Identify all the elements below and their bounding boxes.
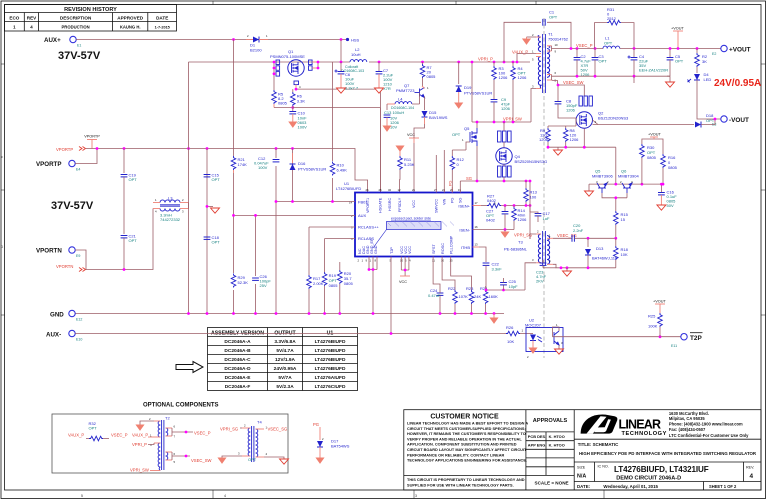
junction rail x292.5 — [291, 147, 294, 150]
wire C4 node down to driver supply — [633, 76, 635, 83]
diode D13 — [587, 238, 589, 247]
svg-text:10uH: 10uH — [351, 52, 361, 57]
diode D16 TVS — [290, 164, 296, 170]
svg-text:2512: 2512 — [607, 16, 617, 21]
svg-text:107K: 107K — [459, 294, 469, 299]
svg-text:SCALE = NONE: SCALE = NONE — [535, 481, 569, 486]
capacitor C2 — [576, 49, 578, 58]
svg-text:26: 26 — [366, 188, 370, 192]
svg-text:E1: E1 — [77, 44, 81, 48]
svg-text:DC2046A-B: DC2046A-B — [224, 348, 251, 354]
isolation barrier dashed line — [543, 18, 545, 358]
svg-text:DC2046A-D: DC2046A-D — [224, 366, 251, 372]
svg-text:VSEC_P: VSEC_P — [576, 43, 593, 48]
capacitor C27 — [504, 204, 507, 207]
svg-text:VSEC_SW: VSEC_SW — [191, 458, 212, 463]
wire vertical 188.5 — [188, 62, 190, 314]
svg-text:E2: E2 — [712, 52, 716, 56]
svg-text:R23: R23 — [466, 286, 474, 291]
resistor R10 — [328, 161, 337, 178]
svg-text:TITLE: SCHEMATIC: TITLE: SCHEMATIC — [578, 442, 619, 447]
wire C19 column — [123, 149, 125, 174]
svg-text:MOC207: MOC207 — [525, 323, 542, 328]
wire ISEN- line — [473, 229, 515, 231]
wire T3 primary top — [530, 234, 536, 239]
assembly version table — [208, 328, 358, 391]
svg-text:1206: 1206 — [570, 137, 580, 142]
svg-text:HIGH EFFICIENCY POE PD INTERFA: HIGH EFFICIENCY POE PD INTERFACE WITH IN… — [579, 451, 757, 456]
resistor R29 — [229, 273, 238, 290]
wire E4 up to rail — [75, 149, 97, 164]
svg-text:750314762: 750314762 — [548, 37, 569, 42]
svg-text:VSEC_P: VSEC_P — [194, 431, 211, 436]
power flag VCC bottom — [400, 275, 410, 277]
svg-text:D13: D13 — [596, 246, 604, 251]
capacitor C8 snubber — [557, 85, 559, 101]
svg-text:LT4276AIUFD: LT4276AIUFD — [315, 375, 346, 381]
wire T1 aux bottom — [517, 54, 536, 63]
ground T4 left — [222, 456, 242, 458]
wire VPRI_P bus (VIN) — [189, 61, 351, 63]
svg-text:17: 17 — [475, 201, 479, 205]
junction rail x97 — [96, 147, 99, 150]
svg-text:12V/1.9A: 12V/1.9A — [275, 357, 296, 363]
svg-text:VCC: VCC — [412, 200, 416, 208]
capacitor C17 — [529, 206, 531, 213]
svg-text:PG: PG — [450, 197, 454, 203]
svg-text:VSEC_P: VSEC_P — [111, 433, 128, 438]
svg-text:25V: 25V — [260, 283, 267, 288]
svg-text:SFST: SFST — [432, 244, 436, 254]
svg-text:Phone: (408)432-1900 www.line: Phone: (408)432-1900 www.linear.com — [669, 422, 743, 427]
svg-text:APP ENG.: APP ENG. — [528, 443, 547, 448]
resistor R13 — [525, 180, 528, 183]
svg-text:DC2046A-A: DC2046A-A — [224, 339, 251, 345]
junction gnd bus j1 — [187, 312, 190, 315]
svg-text:ITHB: ITHB — [461, 245, 470, 250]
svg-text:K. HTOO: K. HTOO — [549, 443, 565, 448]
wire gate drive row — [548, 118, 576, 126]
svg-text:D16: D16 — [298, 161, 306, 166]
wire Q1 source HSSRC line — [296, 89, 380, 192]
U1 ROSC pin — [442, 257, 455, 291]
svg-text:5.23K: 5.23K — [404, 162, 415, 167]
zone tick right b — [761, 189, 766, 191]
GND bus wire — [75, 313, 504, 315]
svg-text:PSMN075-100MSE: PSMN075-100MSE — [270, 54, 305, 59]
U1 PLLCOMP pin — [451, 257, 472, 291]
U1 GND pins to ground bus — [369, 257, 377, 314]
svg-text:24V/0.95A: 24V/0.95A — [714, 78, 761, 89]
driver collector bus — [589, 147, 663, 184]
svg-text:0402: 0402 — [486, 218, 496, 223]
resistor R26 — [504, 333, 506, 335]
ground D17 — [316, 458, 323, 463]
U1 top pin labels — [366, 197, 463, 213]
svg-text:PG: PG — [313, 422, 319, 427]
svg-text:PTVS58VS1UR: PTVS58VS1UR — [464, 91, 492, 96]
wire SG vertical to T3 — [529, 181, 531, 239]
svg-text:R22: R22 — [448, 286, 456, 291]
svg-text:+VOUT: +VOUT — [648, 133, 661, 137]
wire ISEN+ line — [473, 205, 482, 207]
capacitor C25 — [503, 285, 505, 290]
resistor R15 — [614, 211, 619, 225]
ground C6 — [337, 88, 346, 93]
svg-text:-VOUT: -VOUT — [729, 117, 749, 124]
wire source bus — [548, 142, 616, 147]
svg-text:VAUX_P: VAUX_P — [132, 433, 148, 438]
wire VSEC_P bus — [553, 48, 721, 50]
wire C19 to C21 — [123, 177, 125, 234]
approvals block — [526, 418, 574, 486]
wire HSGATE line — [293, 108, 381, 193]
zone tick bottom 1 — [212, 490, 214, 499]
resistor R4 — [512, 62, 514, 66]
svg-text:EEH-ZA1V220R: EEH-ZA1V220R — [639, 68, 668, 73]
svg-text:100V: 100V — [258, 165, 268, 170]
svg-text:VAUX_P: VAUX_P — [68, 433, 84, 438]
svg-text:PCB DES.: PCB DES. — [528, 434, 546, 439]
zone tick top 1 — [212, 1, 214, 5]
transistor Q4 MOSFET — [498, 131, 502, 142]
svg-text:0805: 0805 — [427, 74, 437, 79]
svg-text:E9: E9 — [76, 254, 80, 258]
svg-text:3.3K: 3.3K — [297, 99, 306, 104]
svg-text:FFSDLY: FFSDLY — [398, 197, 402, 212]
svg-text:10: 10 — [441, 259, 445, 263]
svg-text:SWVCC: SWVCC — [434, 199, 438, 213]
svg-text:6.3x7.7: 6.3x7.7 — [345, 86, 359, 91]
transistor Q2 MOSFET — [576, 112, 592, 128]
svg-text:ECO: ECO — [9, 16, 19, 21]
svg-text:OPT: OPT — [549, 15, 558, 20]
svg-text:PE-68386NL: PE-68386NL — [504, 247, 528, 252]
wire VPRI_SW bus — [472, 62, 531, 122]
resistor R9 — [547, 126, 549, 128]
svg-text:E4: E4 — [76, 168, 80, 172]
svg-text:2.2nF: 2.2nF — [573, 228, 584, 233]
svg-text:MMBT3904: MMBT3904 — [618, 174, 639, 179]
resistor R22 — [453, 290, 458, 304]
svg-text:B2100: B2100 — [250, 48, 262, 53]
svg-text:T3: T3 — [518, 240, 523, 245]
capacitor C26 — [251, 276, 260, 284]
svg-text:24K: 24K — [474, 294, 481, 299]
wire vertical 233.5 lower — [233, 215, 235, 314]
wire Q2 pin4 line — [593, 124, 695, 126]
svg-text:Fax: (408)434-0507: Fax: (408)434-0507 — [669, 427, 706, 432]
ground sw — [557, 147, 559, 150]
ground stub near 207 — [207, 205, 213, 207]
svg-text:SG: SG — [466, 176, 472, 181]
svg-text:HSGATE: HSGATE — [379, 197, 383, 213]
svg-text:LT4276BIUFD: LT4276BIUFD — [315, 357, 346, 363]
revision history table — [5, 5, 177, 32]
svg-text:GND: GND — [50, 312, 64, 319]
resistor R31 parallel loop — [595, 23, 635, 49]
svg-text:R25: R25 — [648, 314, 656, 319]
capacitor C5 — [669, 49, 671, 58]
title block outline — [404, 410, 761, 490]
resistor R25 — [659, 335, 662, 338]
resistor R3 — [493, 62, 495, 66]
svg-text:5V/7A: 5V/7A — [278, 375, 292, 381]
svg-text:OPT: OPT — [212, 240, 221, 245]
diode D18 — [695, 122, 701, 128]
svg-text:13: 13 — [475, 243, 479, 247]
junction R3 — [493, 61, 496, 64]
capacitor C10 — [292, 106, 294, 111]
svg-text:OPT: OPT — [706, 118, 715, 123]
wire R5 bottom to HSGATE line — [274, 107, 293, 109]
Linear Technology logo — [581, 411, 750, 438]
svg-text:PERFORMANCE OR RELIABILITY. C: PERFORMANCE OR RELIABILITY. CONTACT LINE… — [407, 453, 505, 457]
resistor R6 — [292, 89, 294, 92]
customer notice — [404, 414, 529, 488]
svg-text:LTC Confidential-For Customer: LTC Confidential-For Customer Use Only — [669, 433, 749, 438]
wire SWVCC pin up — [435, 155, 437, 193]
capacitor C4 — [633, 49, 635, 58]
svg-text:Milpitas, CA 95035: Milpitas, CA 95035 — [669, 416, 706, 421]
resistor R21 — [229, 156, 238, 173]
svg-text:37V-57V: 37V-57V — [51, 200, 94, 212]
svg-text:VPRI_P: VPRI_P — [132, 442, 147, 447]
svg-text:ISEN+: ISEN+ — [458, 203, 470, 208]
resistor R8 — [565, 126, 567, 128]
svg-text:5: 5 — [81, 494, 83, 498]
svg-text:PTVS58VS1UR: PTVS58VS1UR — [298, 167, 326, 172]
capacitor C20 — [553, 237, 572, 239]
svg-text:DC2046A-C: DC2046A-C — [224, 357, 251, 363]
svg-text:744272332: 744272332 — [160, 217, 181, 222]
wire VCC pin column — [413, 143, 415, 193]
svg-text:4: 4 — [224, 494, 226, 498]
svg-text:T2P: T2P — [390, 247, 394, 254]
zone tick left b — [1, 189, 5, 191]
svg-text:10: 10 — [555, 43, 559, 47]
svg-text:DATE:: DATE: — [577, 484, 591, 489]
capacitor C23 — [543, 267, 556, 269]
junction L1 out — [633, 47, 636, 50]
svg-text:RCLASS++: RCLASS++ — [358, 225, 379, 230]
junction gnd bus j2 — [206, 312, 209, 315]
svg-text:0805: 0805 — [344, 281, 354, 286]
zone tick left a — [1, 63, 5, 65]
junction rail x124 — [123, 147, 126, 150]
zone tick bottom 2 — [413, 490, 415, 499]
svg-text:LINEAR TECHNOLOGY HAS MADE A B: LINEAR TECHNOLOGY HAS MADE A BEST EFFORT… — [407, 422, 528, 426]
resistor R20 — [339, 262, 341, 270]
junction C1 drop — [503, 61, 506, 64]
junction R4 — [512, 61, 515, 64]
wire VPORTP rail — [86, 149, 368, 193]
U1 bottom pin labels — [358, 235, 454, 254]
svg-text:VSEC_SG: VSEC_SG — [268, 427, 288, 432]
resistor R30 — [641, 158, 643, 184]
svg-text:SG: SG — [458, 197, 462, 203]
svg-text:BAT54WS: BAT54WS — [331, 444, 350, 449]
wire C21 to VPORTN line — [123, 238, 125, 270]
svg-text:Q5: Q5 — [464, 126, 470, 131]
gate pads Q2 — [579, 96, 582, 106]
ground sg — [566, 268, 568, 271]
svg-text:LT4276CIUFD: LT4276CIUFD — [315, 384, 346, 390]
wire FB01 line — [276, 201, 355, 203]
svg-text:T4: T4 — [257, 420, 262, 425]
svg-text:VIN: VIN — [442, 198, 446, 205]
svg-text:IC NO.: IC NO. — [598, 465, 609, 469]
svg-text:R26: R26 — [506, 325, 514, 330]
wire T3 primary bottom — [525, 263, 536, 290]
svg-text:1206: 1206 — [518, 75, 528, 80]
capacitor C15 — [204, 175, 211, 177]
capacitor C7 — [378, 62, 380, 71]
svg-text:OPTIONAL COMPONENTS: OPTIONAL COMPONENTS — [143, 403, 219, 409]
svg-text:CIRCUIT THAT MEETS CUSTOMER-SU: CIRCUIT THAT MEETS CUSTOMER-SUPPLIED SPE… — [407, 427, 526, 431]
ground C16 — [657, 205, 666, 210]
optional components box — [52, 414, 288, 473]
capacitor C12 — [272, 158, 281, 166]
svg-text:52.3K: 52.3K — [238, 280, 249, 285]
svg-text:CIRCUIT BOARD LAYOUT MAY SIGNI: CIRCUIT BOARD LAYOUT MAY SIGNIFICANTLY A… — [407, 448, 527, 452]
svg-text:50V: 50V — [667, 203, 674, 208]
svg-text:5V/4.7A: 5V/4.7A — [276, 348, 294, 354]
svg-text:VSEC_SG: VSEC_SG — [557, 233, 577, 238]
svg-text:100: 100 — [530, 195, 537, 200]
resistor R11 with VCC arrow — [396, 146, 403, 151]
wire vertical 276 (C12 column) — [275, 149, 277, 315]
svg-text:OPT: OPT — [89, 426, 98, 431]
svg-text:VPORTN: VPORTN — [36, 248, 62, 255]
wire L3 right pins to vertical 188.5 — [188, 203, 190, 209]
ground C10 — [289, 122, 296, 127]
svg-text:174K: 174K — [238, 162, 248, 167]
resistor R23 — [469, 290, 474, 304]
transformer T3 — [504, 230, 553, 266]
svg-text:PLLCOMP: PLLCOMP — [450, 235, 454, 254]
svg-text:VPORTP: VPORTP — [56, 147, 73, 152]
junction VPORTN x124 — [123, 268, 126, 271]
svg-text:1206: 1206 — [501, 106, 511, 111]
svg-text:10: 10 — [400, 259, 404, 263]
svg-text:0805: 0805 — [668, 165, 678, 170]
svg-text:LINEAR: LINEAR — [619, 418, 662, 432]
junction VPRI_SW b — [503, 121, 506, 124]
svg-text:VPORT1: VPORT1 — [366, 198, 370, 213]
svg-text:DATE: DATE — [156, 16, 168, 21]
svg-text:VERIFY PROPER AND RELIABLE OPE: VERIFY PROPER AND RELIABLE OPERATION IN … — [407, 437, 522, 441]
selection arrow pointing to DC2046A-D — [176, 362, 203, 373]
wire E9 down to VPORTN line — [75, 250, 86, 270]
svg-text:OPT: OPT — [599, 59, 608, 64]
wire output return bus — [553, 75, 670, 77]
inductor L4 — [395, 102, 412, 104]
svg-text:0.47uF: 0.47uF — [428, 293, 441, 298]
title area — [574, 439, 761, 490]
svg-text:2KV: 2KV — [536, 279, 544, 284]
svg-text:T2: T2 — [165, 416, 170, 421]
svg-text:OPT: OPT — [675, 59, 684, 64]
zone tick right a — [761, 63, 766, 65]
svg-text:20: 20 — [450, 188, 454, 192]
resistor R7 — [422, 62, 424, 64]
wire VPORTN line — [86, 209, 153, 270]
ground return — [667, 76, 670, 82]
capacitor C24 — [437, 293, 444, 295]
inductor L3 common-mode choke — [153, 196, 189, 223]
svg-text:VPRI_SG: VPRI_SG — [514, 233, 532, 238]
svg-text:X7R: X7R — [383, 86, 391, 91]
svg-text:VPORTP: VPORTP — [36, 161, 61, 168]
transformer T4 — [238, 420, 268, 463]
svg-text:11: 11 — [432, 259, 435, 263]
svg-text:VCC: VCC — [408, 246, 412, 254]
svg-text:15: 15 — [458, 188, 462, 192]
wire sg return bus — [553, 264, 616, 268]
wire T1 pri bottom to VPRI_SW — [531, 89, 536, 123]
capacitor C6 — [340, 62, 342, 71]
wire vertical 233.5 upper (AUX+ to AUX line) — [233, 40, 235, 216]
svg-text:100V: 100V — [298, 125, 308, 130]
svg-text:HSSRC: HSSRC — [388, 197, 392, 211]
ground driver left — [588, 184, 590, 191]
wire ITHB network — [473, 246, 480, 248]
capacitor C22 — [483, 263, 490, 265]
node HSS — [346, 38, 349, 41]
svg-text:REV.: REV. — [746, 466, 754, 470]
svg-text:1630 McCarthy Blvd.: 1630 McCarthy Blvd. — [669, 411, 709, 416]
svg-text:REVISION HISTORY: REVISION HISTORY — [64, 7, 117, 13]
junction sec c — [594, 47, 597, 50]
svg-text:APPROVALS: APPROVALS — [533, 418, 568, 424]
svg-text:LT4276BIUFD: LT4276BIUFD — [336, 186, 361, 191]
svg-text:1uF: 1uF — [543, 216, 550, 221]
svg-text:exposed pad, solder side: exposed pad, solder side — [391, 217, 431, 221]
wire R15 to C20 node — [615, 225, 617, 238]
U1 VCC pins — [401, 257, 409, 277]
svg-text:B4V19WS: B4V19WS — [429, 115, 448, 120]
svg-text:AUX-: AUX- — [46, 332, 61, 339]
svg-text:DC2046A-F: DC2046A-F — [225, 384, 251, 390]
svg-text:ISEN-: ISEN- — [459, 227, 470, 232]
resistor R12 — [451, 172, 453, 193]
junction C7 — [378, 61, 381, 64]
capacitor C19 — [121, 175, 128, 177]
svg-text:4: 4 — [750, 473, 754, 480]
svg-text:DEMO CIRCUIT 2046A-D: DEMO CIRCUIT 2046A-D — [616, 475, 681, 481]
ground C13 — [383, 126, 390, 131]
svg-text:OPT: OPT — [129, 238, 138, 243]
svg-text:HSS: HSS — [351, 38, 360, 43]
svg-text:1206: 1206 — [539, 137, 549, 142]
svg-text:100K: 100K — [648, 324, 658, 329]
resistor R19 class — [325, 239, 355, 273]
wire vertical 255.5 — [255, 215, 257, 314]
zone tick bottom 3 — [603, 490, 605, 499]
wire Q2 source down — [583, 129, 585, 148]
svg-text:3K: 3K — [702, 59, 707, 64]
capacitor C9 — [493, 80, 495, 99]
svg-text:THIS CIRCUIT IS PROPRIETARY TO: THIS CIRCUIT IS PROPRIETARY TO LINEAR TE… — [407, 478, 525, 482]
junction gnd bus j4 — [254, 312, 257, 315]
zone tick right c — [761, 314, 766, 316]
zone tick top 3 — [535, 1, 537, 5]
resistor R18 — [614, 237, 617, 240]
svg-text:+VOUT: +VOUT — [729, 47, 751, 54]
junction C6 — [340, 61, 343, 64]
diode D1 — [246, 34, 268, 53]
